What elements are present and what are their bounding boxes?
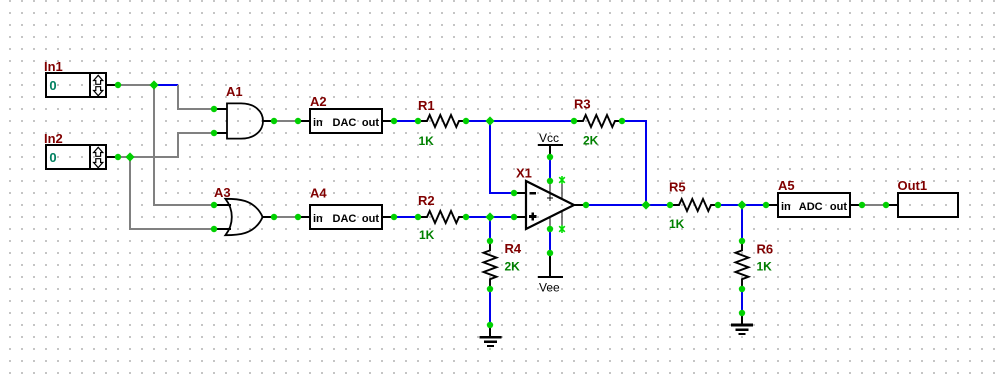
svg-text:Vcc: Vcc bbox=[539, 131, 559, 145]
wire A1 output to A2 input bbox=[274, 120, 298, 122]
pin dot A5 out bbox=[859, 202, 865, 208]
wire op-amp V- to Vee bbox=[549, 229, 551, 253]
pin dot Vee bbox=[547, 250, 553, 256]
output block Out1 bbox=[898, 193, 958, 217]
svg-text:in: in bbox=[313, 213, 323, 225]
svg-text:2K: 2K bbox=[583, 134, 599, 148]
wire In1 junction to corner (blue) bbox=[154, 84, 178, 86]
pin stub ground 2 bbox=[741, 313, 743, 325]
no-connect marker N1 bbox=[559, 176, 565, 184]
no-connect marker N2 bbox=[559, 225, 565, 233]
pin dot R5 right bbox=[715, 202, 721, 208]
svg-text:in: in bbox=[781, 201, 791, 213]
svg-text:0: 0 bbox=[49, 78, 56, 93]
wire A4 out to R2 bbox=[394, 216, 418, 218]
pin dot A3 input b bbox=[211, 226, 217, 232]
svg-text:R1: R1 bbox=[418, 98, 435, 113]
pin dot A1 output bbox=[271, 118, 277, 124]
resistor R3 bbox=[574, 115, 622, 127]
junction node R1/R3/minus bbox=[485, 116, 494, 125]
pin stub A2 out bbox=[382, 120, 394, 122]
svg-text:0: 0 bbox=[49, 150, 56, 165]
pin dot ground G2 bbox=[739, 310, 745, 316]
resistor R2 bbox=[418, 211, 466, 223]
pin dot R2 left bbox=[415, 214, 421, 220]
svg-text:In2: In2 bbox=[44, 131, 63, 146]
pin stub op-amp minus bbox=[514, 192, 526, 194]
wire R6 to ground bbox=[741, 289, 743, 313]
pin dot R5 left bbox=[667, 202, 673, 208]
pin dot R6 top bbox=[739, 238, 745, 244]
svg-text:in: in bbox=[313, 117, 323, 129]
pin dot A4 out bbox=[391, 214, 397, 220]
power Vee bbox=[538, 277, 563, 294]
pin dot In2 output bbox=[115, 154, 121, 160]
svg-text:R6: R6 bbox=[757, 242, 774, 257]
pin null N2 of op-amp bbox=[561, 211, 563, 233]
pin dot A3 output bbox=[271, 214, 277, 220]
junction node In2 bbox=[125, 152, 134, 161]
wire In2 junction down to A3 input b bbox=[130, 157, 214, 229]
svg-text:Out1: Out1 bbox=[898, 178, 928, 193]
svg-text:A2: A2 bbox=[310, 94, 327, 109]
digital input In2 bbox=[46, 145, 106, 169]
resistor R5 bbox=[670, 199, 718, 211]
pin stub A1 output bbox=[263, 120, 275, 122]
svg-text:R3: R3 bbox=[574, 97, 591, 112]
pin stub A5 in bbox=[766, 204, 778, 206]
svg-text:A4: A4 bbox=[310, 186, 327, 201]
ground G2 bbox=[731, 325, 753, 334]
pin dot Out1 in bbox=[883, 202, 889, 208]
pin V+ of op-amp bbox=[549, 181, 551, 200]
DAC block A2 bbox=[310, 109, 382, 133]
wire A3 output to A4 input bbox=[274, 216, 298, 218]
pin stub A3 output bbox=[263, 216, 275, 218]
pin dot In1 output bbox=[115, 82, 121, 88]
pin V- of op-amp bbox=[549, 217, 551, 229]
svg-text:Vee: Vee bbox=[539, 280, 560, 294]
pin dot X1 minus bbox=[511, 190, 517, 196]
pin stub In1 bbox=[106, 84, 118, 86]
pin null N1 of op-amp bbox=[561, 176, 563, 199]
pin stub A5 out bbox=[850, 204, 862, 206]
pin dot R1 left bbox=[415, 118, 421, 124]
pin dot X1 output bbox=[583, 202, 589, 208]
wire In2 junction up to A1 input b bbox=[130, 133, 214, 157]
pin dot Vcc bbox=[547, 154, 553, 160]
svg-text:A3: A3 bbox=[214, 185, 231, 200]
junction node R5/R6/A5 bbox=[737, 200, 746, 209]
pin dot R3 right bbox=[619, 118, 625, 124]
wire junction down to R6 bbox=[741, 205, 743, 241]
pin dot A2 in bbox=[295, 118, 301, 124]
wire In2 pin to junction bbox=[118, 156, 130, 158]
pin dots bbox=[115, 82, 889, 328]
wire junction down to R4 bbox=[489, 217, 491, 241]
pin dot X1 V- bbox=[547, 226, 553, 232]
pin dot R3 left bbox=[571, 118, 577, 124]
pin dot R4 bottom bbox=[487, 286, 493, 292]
pin dot X1 plus bbox=[511, 214, 517, 220]
svg-text:ADC: ADC bbox=[799, 201, 823, 213]
wire R5 to A5 input bbox=[718, 204, 766, 206]
pin stub Vee symbol bbox=[549, 253, 551, 277]
pin stub Vcc symbol bbox=[549, 145, 551, 157]
svg-text:A1: A1 bbox=[226, 84, 243, 99]
pin dot R2 right bbox=[463, 214, 469, 220]
wire R1 to R3 bbox=[466, 120, 574, 122]
op-amp X1 bbox=[526, 181, 574, 229]
wire corner down to A1 input a bbox=[178, 85, 214, 109]
pin dot X1 V+ bbox=[547, 178, 553, 184]
svg-text:In1: In1 bbox=[44, 59, 63, 74]
wire op-amp output to R5 bbox=[586, 204, 670, 206]
resistor R4 bbox=[484, 241, 497, 289]
DAC block A4 bbox=[310, 205, 382, 229]
wire A2 out to R1 bbox=[394, 120, 418, 122]
pin stub op-amp plus bbox=[514, 216, 526, 218]
resistor R1 bbox=[418, 115, 466, 127]
pin stub op-amp output bbox=[574, 204, 586, 206]
svg-text:X1: X1 bbox=[516, 166, 532, 181]
pin stub A4 out bbox=[382, 216, 394, 218]
pin dot R1 right bbox=[463, 118, 469, 124]
wire node to op-amp minus input bbox=[490, 121, 514, 193]
junction node In1 bbox=[149, 80, 158, 89]
wire R2 to op-amp plus input bbox=[466, 216, 514, 218]
pin stub A1 input b bbox=[214, 132, 227, 134]
pin stub A3 input b bbox=[214, 228, 231, 230]
pin stub ground 1 bbox=[489, 325, 491, 337]
pin dot A3 input a bbox=[211, 202, 217, 208]
pin dot A1 input b bbox=[211, 130, 217, 136]
digital input In1 bbox=[46, 73, 106, 97]
pin stub A4 in bbox=[298, 216, 310, 218]
wire In1 junction down to A3 input a bbox=[154, 85, 214, 205]
svg-text:1K: 1K bbox=[419, 228, 435, 242]
OR gate A3 bbox=[225, 199, 262, 235]
svg-text:out: out bbox=[830, 201, 847, 213]
pin dot A5 in bbox=[763, 202, 769, 208]
wire In1 pin to junction bbox=[118, 84, 154, 86]
pin dot A4 in bbox=[295, 214, 301, 220]
svg-text:A5: A5 bbox=[778, 178, 795, 193]
pin dot R6 bottom bbox=[739, 286, 745, 292]
pin stub A3 input a bbox=[214, 204, 231, 206]
svg-text:1K: 1K bbox=[757, 260, 773, 274]
wire R3 to op-amp output node bbox=[622, 121, 646, 205]
pin stub A1 input a bbox=[214, 108, 227, 110]
wire Vcc to op-amp V+ bbox=[549, 157, 551, 181]
power Vcc bbox=[538, 131, 563, 145]
svg-text:DAC: DAC bbox=[333, 117, 357, 129]
AND gate A1 bbox=[227, 103, 263, 138]
pin stub A2 in bbox=[298, 120, 310, 122]
svg-text:DAC: DAC bbox=[333, 213, 357, 225]
wire A5 out to Out1 bbox=[862, 204, 886, 206]
ADC block A5 bbox=[778, 193, 850, 217]
pin stub In2 bbox=[106, 156, 118, 158]
svg-text:out: out bbox=[362, 117, 379, 129]
wire R4 to ground bbox=[489, 289, 491, 325]
junction node output/R3 bbox=[641, 200, 650, 209]
svg-text:R2: R2 bbox=[418, 193, 435, 208]
pin dot R4 top bbox=[487, 238, 493, 244]
svg-text:out: out bbox=[362, 213, 379, 225]
pin dot A2 out bbox=[391, 118, 397, 124]
pin stub Out1 bbox=[886, 204, 898, 206]
resistor R6 bbox=[736, 241, 749, 289]
pin dot ground G1 bbox=[487, 322, 493, 328]
svg-text:R5: R5 bbox=[669, 180, 686, 195]
ground G1 bbox=[480, 337, 502, 346]
svg-text:R4: R4 bbox=[505, 241, 522, 256]
svg-text:1K: 1K bbox=[419, 134, 435, 148]
svg-text:2K: 2K bbox=[505, 260, 521, 274]
svg-text:1K: 1K bbox=[669, 217, 685, 231]
junction node R2/R4/plus bbox=[485, 212, 494, 221]
pin dot A1 input a bbox=[211, 106, 217, 112]
